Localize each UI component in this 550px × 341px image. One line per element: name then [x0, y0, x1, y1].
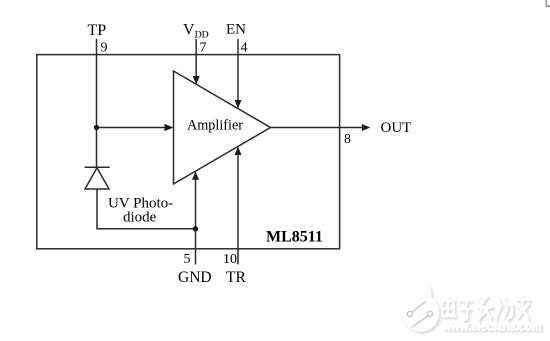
- watermark white copy (elecfans logo and text): [403, 286, 542, 334]
- svg-text:ML8511: ML8511: [266, 229, 323, 246]
- arrowhead VDD: [193, 76, 200, 85]
- arrowhead TR: [235, 147, 242, 156]
- wire TR (pin 10 up to amplifier bottom edge): [237, 154, 239, 265]
- photodiode D1 cathode bar: [85, 166, 110, 168]
- watermark shadow copy (elecfans logo and text): [404, 288, 543, 336]
- wire VDD (pin 7 down to amplifier top edge): [195, 39, 197, 78]
- svg-text:diode: diode: [123, 210, 157, 226]
- svg-text:9: 9: [101, 41, 108, 56]
- wire amplifier input (junction to amplifier): [97, 127, 167, 129]
- svg-text:Amplifier: Amplifier: [187, 118, 243, 134]
- wire EN (pin 4 down to amplifier top edge): [237, 39, 239, 102]
- photodiode D1 anode triangle: [85, 168, 109, 189]
- svg-text:VDD: VDD: [183, 22, 209, 41]
- wire TP vertical (pin 9 into box): [96, 39, 98, 128]
- arrowhead GND: [192, 171, 199, 180]
- arrowhead OUT: [362, 124, 371, 131]
- watermark logo inner circuit traces: [407, 302, 432, 328]
- IC boundary box: [37, 55, 340, 249]
- svg-text:4: 4: [241, 41, 248, 56]
- op-amp U1 amplifier triangle: [174, 71, 271, 184]
- wire diode anode down and right to GND net: [97, 189, 196, 229]
- arrowhead amplifier input: [165, 124, 174, 131]
- node junction GND net: [193, 226, 198, 231]
- svg-text:5: 5: [184, 252, 191, 267]
- svg-text:7: 7: [200, 41, 207, 56]
- svg-text:OUT: OUT: [381, 120, 412, 136]
- arrowhead EN: [235, 100, 242, 109]
- svg-text:EN: EN: [226, 22, 246, 38]
- wire diode cathode (junction down to photodiode): [96, 128, 98, 168]
- svg-text:TR: TR: [226, 269, 246, 286]
- node junction TP-input: [94, 125, 99, 130]
- svg-text:TP: TP: [88, 22, 107, 39]
- svg-text:8: 8: [344, 132, 351, 147]
- svg-text:10: 10: [223, 252, 237, 267]
- wire OUT (amplifier output to pin 8): [271, 127, 364, 129]
- wire GND (pin 5 up to amplifier bottom edge): [195, 178, 197, 264]
- svg-text:GND: GND: [178, 269, 212, 286]
